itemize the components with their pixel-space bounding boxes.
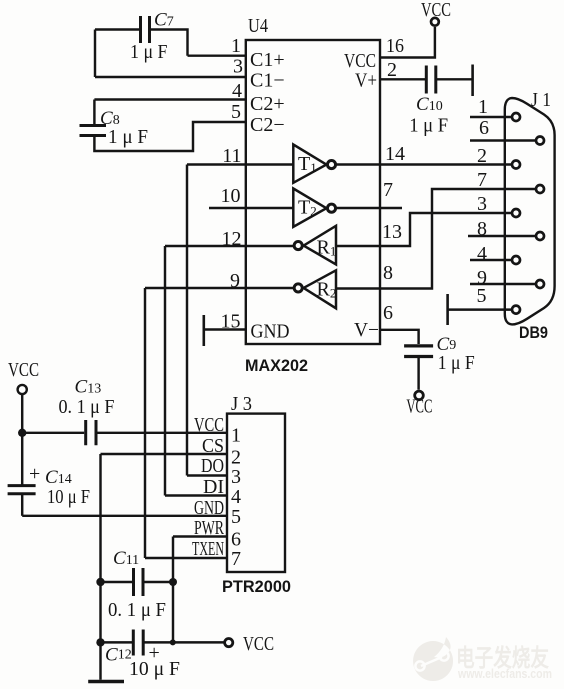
- svg-text:C2+: C2+: [250, 93, 285, 115]
- svg-text:1: 1: [231, 35, 241, 57]
- svg-text:C13: C13: [75, 377, 102, 398]
- svg-text:4: 4: [231, 486, 241, 508]
- svg-text:C1+: C1+: [250, 49, 285, 71]
- svg-text:7: 7: [383, 179, 393, 201]
- svg-text:VCC: VCC: [421, 0, 451, 21]
- svg-text:14: 14: [385, 143, 405, 165]
- svg-text:0. 1 μ F: 0. 1 μ F: [108, 599, 166, 621]
- svg-text:TXEN: TXEN: [192, 538, 224, 560]
- svg-text:1: 1: [231, 425, 241, 447]
- svg-text:6: 6: [383, 302, 393, 324]
- svg-text:2: 2: [477, 145, 487, 167]
- svg-text:C12: C12: [105, 645, 132, 666]
- svg-text:DB9: DB9: [519, 323, 548, 342]
- svg-text:9: 9: [230, 270, 240, 292]
- svg-text:12: 12: [222, 228, 242, 250]
- svg-text:GND: GND: [251, 321, 290, 343]
- svg-text:CS: CS: [202, 435, 224, 457]
- svg-text:10 μ F: 10 μ F: [129, 658, 180, 680]
- svg-text:7: 7: [231, 548, 241, 570]
- svg-text:www.elecfans.com: www.elecfans.com: [457, 666, 552, 681]
- svg-text:5: 5: [477, 285, 487, 307]
- svg-text:1 μ F: 1 μ F: [409, 115, 448, 137]
- svg-text:R2: R2: [317, 279, 337, 301]
- svg-text:13: 13: [382, 221, 402, 243]
- svg-text:MAX202: MAX202: [245, 356, 308, 375]
- svg-text:0. 1 μ F: 0. 1 μ F: [59, 396, 115, 418]
- svg-text:16: 16: [386, 35, 404, 57]
- svg-text:J 3: J 3: [231, 393, 252, 415]
- svg-text:C14: C14: [45, 467, 72, 488]
- svg-text:5: 5: [231, 101, 241, 123]
- svg-text:3: 3: [231, 466, 241, 488]
- svg-text:4: 4: [232, 80, 242, 102]
- svg-text:C11: C11: [113, 548, 139, 569]
- svg-text:8: 8: [383, 262, 393, 284]
- svg-text:3: 3: [477, 193, 487, 215]
- svg-text:10 μ F: 10 μ F: [47, 486, 90, 508]
- svg-text:5: 5: [231, 506, 241, 528]
- svg-text:C2−: C2−: [250, 114, 285, 136]
- svg-text:V+: V+: [355, 70, 377, 92]
- svg-text:C7: C7: [154, 10, 174, 31]
- svg-text:R1: R1: [317, 237, 337, 259]
- svg-text:VCC: VCC: [194, 414, 224, 436]
- svg-text:1 μ F: 1 μ F: [130, 41, 168, 63]
- svg-text:GND: GND: [194, 497, 224, 519]
- svg-text:VCC: VCC: [8, 359, 39, 381]
- svg-text:11: 11: [222, 145, 241, 167]
- svg-text:10: 10: [221, 185, 241, 207]
- svg-text:1 μ F: 1 μ F: [438, 352, 475, 374]
- svg-text:PTR2000: PTR2000: [222, 577, 291, 596]
- svg-text:U4: U4: [248, 15, 268, 37]
- svg-text:15: 15: [221, 311, 241, 333]
- svg-text:V−: V−: [354, 319, 379, 341]
- svg-text:VCC: VCC: [406, 396, 432, 418]
- svg-text:C1−: C1−: [250, 70, 285, 92]
- svg-text:PWR: PWR: [194, 517, 224, 539]
- svg-text:8: 8: [477, 218, 487, 240]
- svg-text:C10: C10: [416, 94, 443, 115]
- svg-text:4: 4: [477, 243, 487, 265]
- svg-text:6: 6: [479, 117, 489, 139]
- svg-text:1 μ F: 1 μ F: [108, 126, 148, 148]
- svg-text:7: 7: [477, 169, 487, 191]
- svg-text:VCC: VCC: [243, 633, 274, 655]
- svg-text:DO: DO: [201, 455, 224, 477]
- svg-text:+: +: [29, 463, 40, 485]
- svg-text:DI: DI: [203, 476, 224, 498]
- svg-text:1: 1: [478, 96, 488, 118]
- svg-text:J 1: J 1: [531, 89, 551, 111]
- svg-text:2: 2: [387, 59, 397, 81]
- svg-text:3: 3: [233, 56, 243, 78]
